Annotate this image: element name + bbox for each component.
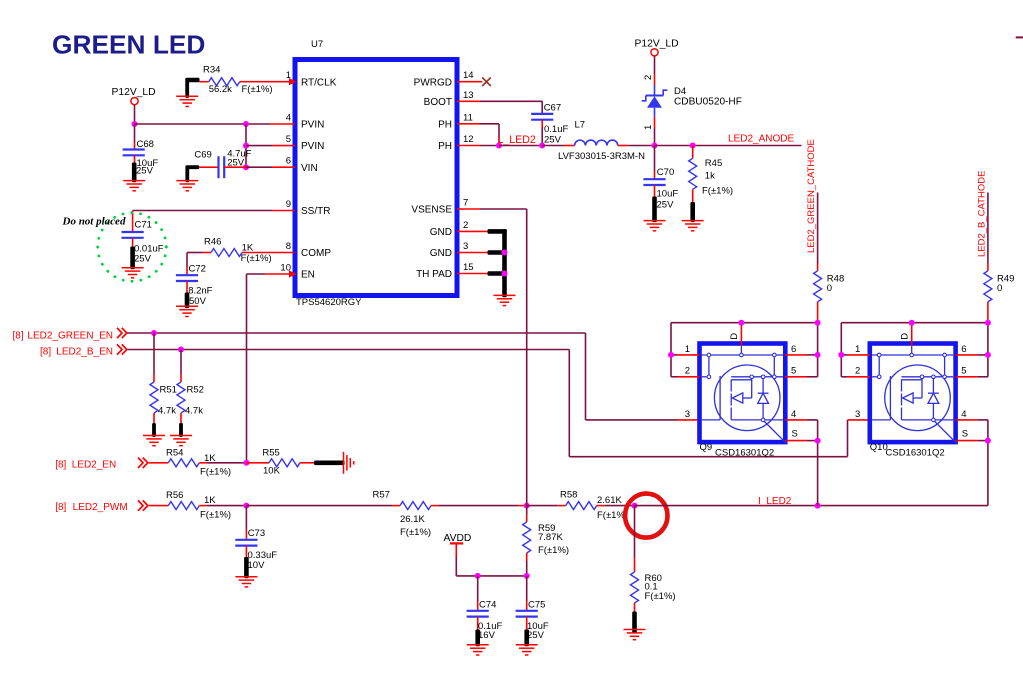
node LED2_B_CATHODE label (977, 171, 988, 257)
junction PVIN5 tap (243, 143, 249, 149)
wire LED2_PWM row to R57 (246, 505, 400, 507)
wire SS/TR pin9 row (133, 210, 295, 212)
svg-text:6: 6 (286, 156, 291, 167)
svg-text:25V: 25V (134, 254, 152, 265)
capacitor C68 10uF 25V (123, 124, 159, 177)
svg-text:4.7k: 4.7k (185, 406, 203, 417)
capacitor C72 8.2nF 50V (176, 253, 213, 307)
wire EN pin10 to LED2_EN node (247, 274, 296, 463)
svg-text:R51: R51 (160, 385, 177, 396)
svg-text:PVIN: PVIN (301, 120, 324, 131)
svg-text:14: 14 (463, 70, 474, 81)
svg-text:CSD16301Q2: CSD16301Q2 (715, 447, 774, 458)
svg-text:5: 5 (791, 366, 796, 377)
capacitor C74 0.1uF 16V (467, 576, 503, 641)
svg-text:C75: C75 (528, 599, 545, 610)
resistor R49 0 (984, 263, 1015, 323)
svg-text:8: 8 (286, 241, 291, 252)
junction Q9 rail right / cathode resistor (815, 320, 821, 326)
wire AVDD to C74 C75 R59 bottom (456, 557, 526, 576)
resistor R58 2.61K (527, 489, 635, 521)
svg-text:R57: R57 (373, 490, 390, 501)
svg-text:RT/CLK: RT/CLK (301, 77, 337, 88)
ground for R51 (143, 423, 165, 446)
svg-text:BOOT: BOOT (424, 97, 452, 108)
svg-text:S: S (792, 429, 798, 440)
svg-text:GND: GND (430, 227, 452, 238)
svg-text:4: 4 (791, 409, 796, 420)
wire P12V_LD rail down to PVIN row (134, 105, 136, 124)
junction EN / R54 / R55 node (244, 460, 250, 466)
svg-text:TPS54620RGY: TPS54620RGY (296, 297, 362, 308)
svg-text:2: 2 (855, 366, 860, 377)
svg-text:4: 4 (286, 113, 291, 124)
junction Q10 S pin tie (985, 438, 991, 444)
svg-text:0: 0 (997, 283, 1002, 294)
svg-text:PVIN: PVIN (301, 141, 324, 152)
svg-text:1k: 1k (705, 170, 715, 181)
resistor R34 56.2k (199, 65, 295, 96)
diode D4 CDBU0520-HF (642, 56, 742, 146)
junction Q10 pin6 tie (985, 352, 991, 358)
junction C67 tap (539, 143, 545, 149)
transistor Q9 CSD16301Q2 body (678, 324, 808, 458)
junction PVIN branch at x246 (243, 121, 249, 127)
svg-text:7.87K: 7.87K (538, 532, 563, 543)
ground for C74 (467, 630, 489, 656)
ground for GND bus (494, 295, 516, 305)
wire Q10 drain loop and rail (841, 323, 988, 506)
resistor R55 10K (247, 448, 315, 477)
svg-text:R54: R54 (166, 448, 183, 459)
wire vertical branch x246 to PVIN5 and VIN (245, 124, 247, 167)
wire LED2_GREEN_EN row to Q9 gate (127, 333, 699, 420)
svg-text:2: 2 (463, 220, 468, 231)
ground for C71 (122, 247, 144, 278)
svg-text:GND: GND (430, 248, 452, 259)
svg-text:L_LED2: L_LED2 (498, 134, 536, 146)
wire BOOT pin13 to C67 (457, 101, 542, 114)
wire LED2_GREEN_CATHODE to R48 (817, 193, 819, 264)
node L_LED2 label (498, 134, 536, 146)
resistor R51 4.7k (150, 333, 177, 425)
resistor R56 1K (149, 490, 247, 520)
svg-text:F(±1%): F(±1%) (538, 545, 569, 556)
svg-text:[8]: [8] (55, 502, 66, 513)
svg-text:0: 0 (827, 283, 832, 294)
junction TH PAD pin15 to bus (502, 271, 508, 277)
svg-text:25V: 25V (227, 158, 245, 169)
wire off-page stub (top right) (1016, 36, 1023, 38)
junction R51 tap (151, 330, 157, 336)
wire PVIN pin4 row (135, 123, 296, 125)
wire VIN pin6 row (246, 166, 295, 168)
ground for C69 (thick bar) (176, 165, 199, 191)
power P12V_LD (right) (635, 38, 679, 56)
capacitor C71 0.01uF 25V (not placed) (122, 211, 164, 265)
svg-text:C73: C73 (248, 528, 265, 539)
junction Q10 pin1 tie (838, 352, 844, 358)
svg-text:LVF303015-3R3M-N: LVF303015-3R3M-N (558, 151, 645, 162)
svg-text:EN: EN (301, 270, 315, 281)
svg-text:F(±1%): F(±1%) (242, 84, 273, 95)
U7 pin 1 input arrow (289, 78, 297, 85)
junction GND pin3 to bus (502, 250, 508, 256)
svg-text:25V: 25V (136, 166, 154, 177)
wire TH PAD pin15 stub (457, 273, 488, 275)
ground for R34 (thick bar) (176, 78, 199, 107)
ground for C75 (516, 630, 538, 656)
junction R45 tap (690, 143, 696, 149)
junction R52 tap (178, 347, 184, 353)
svg-text:16V: 16V (478, 630, 496, 641)
svg-text:AVDD: AVDD (444, 533, 472, 544)
svg-text:6: 6 (961, 344, 966, 355)
junction C74 tap (475, 573, 481, 579)
svg-text:3: 3 (685, 409, 690, 420)
svg-text:3: 3 (463, 241, 468, 252)
svg-text:Do not placed: Do not placed (62, 216, 126, 228)
ground for R45 (682, 202, 704, 231)
node LED2_GREEN_CATHODE label (806, 139, 817, 253)
svg-text:56.2k: 56.2k (209, 84, 232, 95)
node LED2_GREEN_EN input label (13, 328, 127, 342)
inductor L7 LVF303015-3R3M-N (542, 120, 654, 162)
U7 left pin names and numbers (280, 70, 336, 280)
note Do not placed (62, 216, 126, 228)
svg-text:11: 11 (463, 112, 473, 123)
no-connect X on PWRGD (482, 78, 491, 87)
svg-text:1: 1 (643, 125, 654, 130)
resistor R59 7.87K (523, 506, 569, 576)
svg-text:C72: C72 (189, 263, 206, 274)
svg-text:10V: 10V (248, 560, 266, 571)
ground for C72 (176, 293, 198, 317)
svg-text:R34: R34 (203, 65, 220, 76)
resistor R52 4.7k (177, 350, 204, 425)
svg-text:9: 9 (286, 199, 291, 210)
junction R59 / C75 node (524, 573, 530, 579)
junction Q9 source to I_LED2 (815, 503, 821, 509)
annotation red circle highlight (625, 494, 667, 538)
svg-text:0.1uF: 0.1uF (544, 124, 568, 135)
IC U7 TPS54620RGY body (295, 39, 457, 308)
resistor R46 1K (187, 237, 295, 264)
junction P12V rail / PVIN wire (132, 121, 138, 127)
do-not-place green dotted circle (98, 213, 167, 282)
svg-text:25V: 25V (544, 135, 562, 146)
wire VSENSE pin7 to feedback node (457, 209, 527, 506)
ground bus thick bars for GND pins (488, 229, 507, 297)
svg-text:1: 1 (685, 344, 690, 355)
svg-text:LED2_ANODE: LED2_ANODE (728, 133, 794, 144)
svg-text:10K: 10K (263, 465, 281, 476)
svg-text:5: 5 (286, 134, 291, 145)
svg-text:F(±1%): F(±1%) (200, 467, 231, 478)
svg-text:P12V_LD: P12V_LD (112, 87, 156, 98)
U7 pin 10 input arrow (289, 270, 297, 277)
ground for R55 (thick bar, rotated) (314, 452, 354, 474)
junction D4 anode tap (652, 143, 658, 149)
capacitor C70 10uF 25V (643, 146, 678, 211)
wire L_LED2 to C67 tap (499, 145, 542, 147)
junction Q9 pin1 tie (668, 352, 674, 358)
resistor R48 0 (814, 263, 845, 323)
capacitor C69 4.7uF 25V (194, 148, 251, 178)
svg-text:LED2_GREEN_CATHODE: LED2_GREEN_CATHODE (806, 139, 817, 253)
svg-text:5: 5 (961, 366, 966, 377)
title GREEN LED (52, 30, 205, 60)
resistor R60 0.1 (631, 506, 676, 613)
wire LED2_ANODE net (655, 145, 802, 147)
svg-text:R55: R55 (262, 448, 279, 459)
node LED2_PWM input label (55, 500, 148, 513)
svg-text:R52: R52 (187, 385, 204, 396)
resistor R54 1K (149, 448, 247, 478)
svg-text:1: 1 (855, 344, 860, 355)
svg-text:3: 3 (855, 409, 860, 420)
junction VSENSE / R57 / R58 / R59 node (524, 503, 530, 509)
svg-text:C74: C74 (479, 599, 496, 610)
svg-text:CDBU0520-HF: CDBU0520-HF (674, 96, 742, 107)
power P12V_LD (left) (112, 87, 156, 105)
svg-text:I_LED2: I_LED2 (758, 496, 792, 507)
svg-text:2: 2 (643, 75, 654, 80)
svg-text:1K: 1K (204, 495, 216, 506)
svg-text:[8]: [8] (13, 330, 24, 341)
junction PH pins joint (496, 143, 502, 149)
resistor R57 26.1K (373, 490, 527, 539)
svg-text:1K: 1K (204, 453, 216, 464)
transistor Q10 CSD16301Q2 body (848, 324, 978, 458)
svg-text:F(±1%): F(±1%) (645, 591, 676, 602)
capacitor C67 0.1uF 25V (531, 102, 568, 145)
junction C73 tap (243, 503, 249, 509)
resistor R45 1k (689, 146, 733, 204)
svg-text:PWRGD: PWRGD (414, 77, 452, 88)
junction Q10 rail right / cathode resistor (985, 320, 991, 326)
svg-text:25V: 25V (527, 630, 545, 641)
svg-text:R56: R56 (166, 490, 183, 501)
svg-text:C70: C70 (657, 167, 674, 178)
capacitor C75 10uF 25V (516, 576, 549, 641)
node I_LED2 label (758, 496, 792, 507)
svg-text:10uF: 10uF (657, 188, 679, 199)
ground for C73 (235, 557, 257, 587)
svg-text:TH PAD: TH PAD (416, 269, 452, 280)
svg-text:U7: U7 (311, 39, 323, 50)
svg-text:D: D (729, 333, 740, 340)
svg-text:P12V_LD: P12V_LD (635, 38, 679, 49)
wire PVIN pin5 row (246, 145, 295, 147)
svg-text:1K: 1K (242, 242, 254, 253)
svg-text:0.01uF: 0.01uF (134, 243, 164, 254)
junction R58 / R60 / I_LED2 node (632, 503, 638, 509)
svg-text:R58: R58 (560, 489, 577, 500)
svg-text:LED2_B_EN: LED2_B_EN (56, 347, 113, 358)
wire LED2_B_EN row to Q10 gate (127, 350, 870, 457)
node LED2_ANODE label (728, 133, 794, 144)
svg-text:CSD16301Q2: CSD16301Q2 (886, 447, 945, 458)
svg-text:SS/TR: SS/TR (301, 206, 330, 217)
svg-text:C71: C71 (135, 220, 152, 231)
svg-text:15: 15 (463, 262, 474, 273)
ground for R60 (624, 612, 646, 640)
junction Q9 pin6 tie (815, 352, 821, 358)
junction VIN tap (243, 164, 249, 170)
svg-text:PH: PH (438, 119, 452, 130)
svg-text:F(±1%): F(±1%) (241, 253, 272, 264)
svg-text:[8]: [8] (55, 459, 66, 470)
svg-text:D: D (899, 333, 910, 340)
wire PWRGD pin14 stub (457, 81, 482, 83)
svg-text:4.7k: 4.7k (158, 406, 176, 417)
svg-text:F(±1%): F(±1%) (200, 509, 231, 520)
svg-text:2.61K: 2.61K (597, 495, 622, 506)
ground for C68 (123, 163, 145, 191)
svg-text:C69: C69 (194, 150, 211, 161)
wire Q9 drain loop and rail (671, 323, 818, 506)
svg-text:7: 7 (463, 198, 468, 209)
svg-text:VIN: VIN (301, 163, 318, 174)
wire GND pin2 stub (457, 230, 488, 232)
svg-text:LED2_GREEN_EN: LED2_GREEN_EN (27, 330, 113, 341)
node LED2_B_EN input label (40, 344, 127, 357)
svg-text:GREEN LED: GREEN LED (52, 30, 205, 60)
svg-text:[8]: [8] (40, 347, 51, 358)
svg-text:PH: PH (438, 141, 452, 152)
svg-text:LED2_EN: LED2_EN (72, 459, 116, 470)
svg-text:50V: 50V (189, 296, 207, 307)
svg-text:L7: L7 (575, 120, 586, 131)
svg-text:4: 4 (961, 409, 966, 420)
svg-text:D4: D4 (674, 86, 686, 97)
svg-text:2: 2 (685, 366, 690, 377)
svg-text:6: 6 (791, 344, 796, 355)
ground for C70 (644, 197, 666, 231)
ground for R52 (170, 423, 192, 446)
junction Q9 S pin tie (815, 438, 821, 444)
wire I_LED2 net (635, 505, 988, 507)
svg-text:C67: C67 (544, 102, 561, 113)
svg-text:LED2_B_CATHODE: LED2_B_CATHODE (977, 171, 988, 257)
svg-text:VSENSE: VSENSE (411, 205, 452, 216)
svg-text:LED2_PWM: LED2_PWM (73, 502, 128, 513)
svg-text:13: 13 (463, 90, 474, 101)
svg-text:R45: R45 (705, 158, 722, 169)
wire PH pin11 elbow (457, 124, 499, 146)
svg-text:C68: C68 (137, 139, 154, 150)
node LED2_EN input label (55, 458, 148, 471)
svg-text:Q9: Q9 (700, 442, 713, 453)
power AVDD (444, 533, 472, 557)
svg-text:F(±1%): F(±1%) (400, 527, 431, 538)
svg-text:S: S (962, 429, 968, 440)
svg-text:26.1K: 26.1K (400, 514, 425, 525)
capacitor C73 0.33uF 10V (235, 506, 277, 572)
wire PH pin12 stub (457, 145, 499, 147)
svg-text:12: 12 (463, 134, 474, 145)
wire LED2_B_CATHODE to R49 (987, 193, 989, 264)
junction Q9 D pin to rail (738, 320, 744, 326)
svg-text:COMP: COMP (301, 248, 331, 259)
svg-text:F(±1%): F(±1%) (702, 186, 733, 197)
svg-text:25V: 25V (657, 199, 675, 210)
wire GND pin3 stub (457, 252, 488, 254)
U7 right pin names and numbers (411, 70, 473, 280)
svg-text:R46: R46 (204, 237, 221, 248)
junction Q10 D pin to rail (909, 320, 915, 326)
